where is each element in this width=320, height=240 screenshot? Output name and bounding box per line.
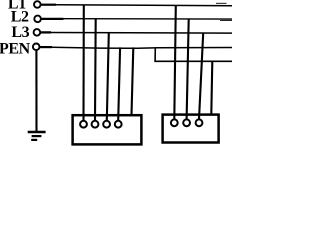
svg-text:PEN: PEN	[0, 40, 31, 57]
svg-text:L3: L3	[11, 24, 29, 41]
